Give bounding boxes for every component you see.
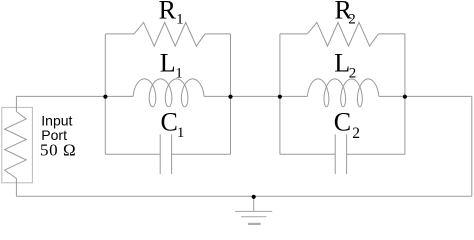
svg-text:1: 1 [177, 125, 185, 141]
ground bar 2 [241, 216, 266, 218]
svg-text:1: 1 [175, 65, 183, 81]
input port box [2, 107, 33, 182]
wire: ground stub [253, 196, 255, 211]
capacitor C1 left plate [159, 134, 161, 174]
ground bar 1 [235, 210, 272, 212]
wire: main line right segment [405, 95, 472, 97]
capacitor C1 right plate [171, 134, 173, 174]
resistor R1 zigzag [134, 22, 205, 46]
inductor L1 coil [133, 79, 204, 107]
ground bar 3 [248, 223, 261, 225]
wire: tank1 main-line left stub [105, 95, 133, 97]
wire: tank2 main-line left stub [280, 95, 308, 97]
wire: tank1 top branch left [105, 33, 134, 35]
resistor R2 zigzag [307, 22, 378, 46]
svg-text:C: C [334, 108, 351, 137]
wire: bottom line [16, 195, 471, 197]
node E: ground junction [252, 195, 256, 199]
svg-text:C: C [161, 108, 178, 137]
capacitor C2 right plate [346, 134, 348, 174]
tank 1 right vertical wire [230, 34, 232, 154]
wire: tank2 top branch right [378, 33, 405, 35]
wire: tank1 bottom branch right [172, 153, 231, 155]
svg-text:2: 2 [349, 65, 357, 81]
wire: tank1 top branch right [205, 33, 231, 35]
wire: tank2 bottom branch right [347, 153, 405, 155]
node D: tank2 right [403, 95, 407, 99]
tank 1 left vertical wire [104, 34, 106, 154]
svg-text:2: 2 [352, 125, 360, 142]
wire: tank2 bottom branch left [280, 153, 335, 155]
wire: tank1 bottom branch left [105, 153, 160, 155]
svg-text:1: 1 [176, 11, 184, 27]
capacitor C2 left plate [334, 134, 336, 174]
svg-text:L: L [160, 48, 176, 77]
wire: right edge vertical [471, 96, 473, 196]
wire: tank1 main-line right stub [204, 95, 231, 97]
wire: main line left segment [16, 96, 105, 111]
node A: tank1 left [103, 95, 107, 99]
svg-text:2: 2 [348, 11, 356, 27]
tank 2 right vertical wire [404, 34, 406, 154]
resistor input 50ohm (vertical zigzag) [5, 112, 27, 179]
wire: tank2 main-line right stub [379, 95, 405, 97]
wire: tank2 top branch left [280, 33, 307, 35]
tank 2 left vertical wire [279, 34, 281, 154]
wire: main line between tanks [231, 95, 280, 97]
node B: tank1 right [228, 95, 232, 99]
wire: bottom-left drop [15, 178, 17, 196]
inductor L2 coil [307, 79, 379, 107]
svg-text:50 Ω: 50 Ω [40, 140, 76, 159]
node C: tank2 left [278, 95, 282, 99]
svg-text:Input: Input [41, 113, 72, 129]
svg-text:R: R [159, 0, 177, 24]
